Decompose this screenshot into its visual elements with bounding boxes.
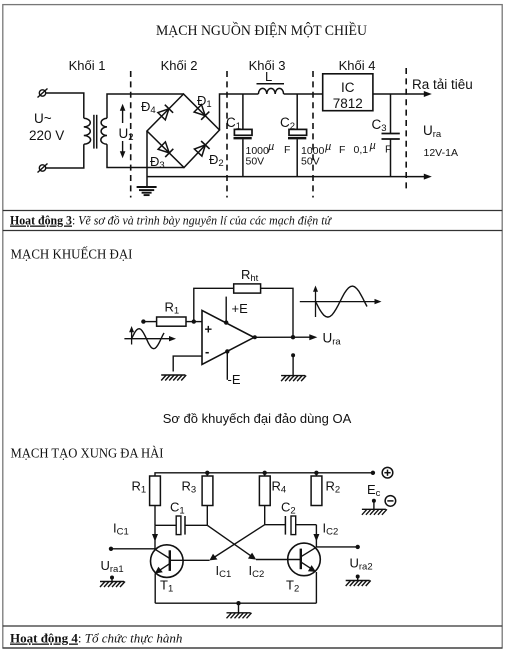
resistor R4 xyxy=(259,476,270,506)
node dot rail R4 xyxy=(263,471,267,475)
wire input to R1 xyxy=(143,321,156,323)
svg-text:Ura: Ura xyxy=(423,123,442,140)
resistor R1 xyxy=(150,476,161,506)
ground node dot below output xyxy=(291,353,295,357)
output waveform axis xyxy=(300,286,382,318)
input node dot xyxy=(141,319,145,323)
wire minus input to ground xyxy=(173,356,202,371)
wire bridge plus output up to top bus xyxy=(220,94,259,130)
ground Ura1 xyxy=(100,582,125,588)
svg-text:Đ2: Đ2 xyxy=(209,152,224,169)
node dot rail R2 xyxy=(314,471,318,475)
transformer secondary winding xyxy=(101,118,107,144)
bridge rectifier diamond wires xyxy=(147,94,220,168)
svg-text:7812: 7812 xyxy=(333,96,363,111)
svg-text:Ura: Ura xyxy=(323,331,342,348)
transistor T2 emitter diagonal with arrow xyxy=(301,562,316,572)
svg-text:Sơ đồ khuyếch đại đảo dùng OA: Sơ đồ khuyếch đại đảo dùng OA xyxy=(163,411,352,426)
+E supply wire xyxy=(225,297,227,323)
svg-text:µ: µ xyxy=(268,141,274,153)
diode D1 xyxy=(194,105,209,120)
wire R3 down to C1 node xyxy=(206,506,208,526)
resistor Rht xyxy=(234,284,261,293)
ground Ura2 xyxy=(346,581,371,587)
input waveform axis xyxy=(124,326,176,345)
node dot Ura1 ground xyxy=(110,576,114,580)
svg-text:Khối 2: Khối 2 xyxy=(161,58,198,73)
wire T1 base xyxy=(170,559,210,561)
svg-text:C1: C1 xyxy=(170,500,185,517)
output arrow bottom xyxy=(424,174,432,180)
node dot Ura1 xyxy=(109,547,113,551)
svg-text:F: F xyxy=(339,144,345,156)
wire T2 base xyxy=(256,559,301,561)
node junction feedback dot xyxy=(192,319,196,323)
svg-text:Đ4: Đ4 xyxy=(141,99,156,116)
transformer core xyxy=(94,115,97,149)
svg-text:µ: µ xyxy=(370,140,376,152)
separator line above Hoat dong 3 row xyxy=(3,210,502,212)
output arrowhead xyxy=(309,334,317,340)
svg-text:IC: IC xyxy=(341,80,355,95)
separator line below Hoat dong 3 row xyxy=(3,230,502,232)
transistor T2 base bar xyxy=(300,549,302,570)
wire Ura2 tap xyxy=(316,546,357,548)
wire rail to R3 xyxy=(206,473,208,476)
svg-text:R2: R2 xyxy=(326,479,341,496)
svg-text:0,1: 0,1 xyxy=(354,144,369,156)
svg-text:-E: -E xyxy=(228,372,241,387)
transistor T1 circle xyxy=(151,545,184,578)
svg-text:Đ3: Đ3 xyxy=(150,154,165,171)
capacitor C2 xyxy=(265,516,317,535)
svg-text:C2: C2 xyxy=(280,115,295,132)
battery minus terminal xyxy=(385,496,396,507)
-E supply wire xyxy=(226,351,228,379)
resistor R2 xyxy=(311,476,322,506)
svg-text:T1: T1 xyxy=(160,578,173,595)
wire IC output to arrow xyxy=(373,93,425,95)
battery plus terminal xyxy=(382,467,393,478)
wire Ura1 ground stub xyxy=(111,578,113,582)
wire top supply rail xyxy=(155,473,373,476)
diode D4 xyxy=(158,105,173,120)
wire collector T1 with IC1 arrow xyxy=(152,525,158,549)
diode D2 xyxy=(194,141,209,156)
resistor R3 xyxy=(202,476,213,506)
wire primary loop xyxy=(46,93,84,168)
input terminal top xyxy=(38,89,48,98)
svg-text:220 V: 220 V xyxy=(29,128,64,143)
output wire xyxy=(254,336,311,338)
node dot rail R3 xyxy=(205,471,209,475)
wire T2 emitter down xyxy=(315,572,317,603)
wire ground stub bottom rail xyxy=(238,603,240,613)
dashed boundary line 4 xyxy=(405,68,407,192)
svg-text:F: F xyxy=(385,144,391,156)
svg-text:IC2: IC2 xyxy=(323,521,339,538)
node dot Ec ground xyxy=(372,499,376,503)
svg-text:T2: T2 xyxy=(286,578,299,595)
input sine wave xyxy=(132,329,164,349)
ground (bars style) xyxy=(137,187,157,195)
transistor T2 collector diagonal xyxy=(301,547,316,557)
separator line below Hoat dong 4 row (frame bottom) xyxy=(3,647,502,649)
output sine wave xyxy=(316,286,368,317)
svg-text:Hoạt động 3: Vẽ sơ đồ và trình: Hoạt động 3: Vẽ sơ đồ và trình bày nguyê… xyxy=(10,213,332,228)
svg-text:IC1: IC1 xyxy=(216,563,232,580)
svg-text:Khối 4: Khối 4 xyxy=(339,58,376,73)
transformer primary winding xyxy=(84,118,91,144)
output node dot xyxy=(291,335,295,339)
svg-text:Ec: Ec xyxy=(367,482,381,499)
wire rail to R4 xyxy=(264,473,266,476)
wire bottom bus xyxy=(147,176,425,178)
capacitor C2 xyxy=(288,94,307,177)
wire Ura1 tap xyxy=(111,548,155,550)
U2 down arrow xyxy=(120,141,126,158)
svg-text:Ura1: Ura1 xyxy=(101,558,124,575)
svg-text:Khối 1: Khối 1 xyxy=(69,58,106,73)
svg-text:12V-1A: 12V-1A xyxy=(424,147,458,159)
wire rail to R2 xyxy=(315,473,317,476)
cross-coupling wire R4 to T1 base with arrow xyxy=(209,525,264,561)
wire R1 down to C1 node xyxy=(154,506,156,526)
svg-text:Ra tải tiêu: Ra tải tiêu xyxy=(412,77,473,92)
svg-text:R4: R4 xyxy=(272,479,287,496)
cross-coupling wire R3 to T2 base with arrow xyxy=(207,525,256,559)
svg-text:IC1: IC1 xyxy=(113,521,129,538)
svg-text:R1: R1 xyxy=(165,300,180,317)
resistor R1 xyxy=(157,317,186,326)
svg-text:MẠCH NGUỒN ĐIỆN MỘT CHIỀU: MẠCH NGUỒN ĐIỆN MỘT CHIỀU xyxy=(156,21,367,39)
svg-text:Đ1: Đ1 xyxy=(197,93,212,110)
capacitor C1 xyxy=(155,516,207,535)
wire Rht to output node xyxy=(261,288,293,337)
svg-text:50V: 50V xyxy=(301,156,320,168)
transistor T2 circle xyxy=(288,543,321,576)
+E node dot xyxy=(224,320,228,324)
svg-text:C1: C1 xyxy=(226,115,241,132)
node dot rail end xyxy=(371,471,375,475)
wire R2 down with IC2 arrow to T2 collector xyxy=(313,525,319,548)
capacitor C1 xyxy=(234,94,253,177)
IC 7812 box xyxy=(323,74,373,111)
wire Ec ground stub xyxy=(373,501,375,510)
dashed boundary line 3 xyxy=(312,71,314,198)
ground bottom rail xyxy=(227,613,252,619)
ground Ec xyxy=(362,509,387,515)
wire down to output ground xyxy=(292,355,294,375)
separator line above Hoat dong 4 row xyxy=(3,625,502,627)
wire Ura2 ground stub xyxy=(357,577,359,581)
wire bridge minus output down xyxy=(146,131,148,187)
svg-text:MẠCH KHUẾCH ĐẠI: MẠCH KHUẾCH ĐẠI xyxy=(11,246,133,263)
U2 up arrow xyxy=(120,104,126,123)
svg-text:+E: +E xyxy=(232,301,249,316)
capacitor C3 xyxy=(382,94,400,177)
wire secondary loop xyxy=(107,94,184,168)
svg-text:Ura2: Ura2 xyxy=(350,556,373,573)
svg-text:MẠCH TẠO XUNG ĐA HÀI: MẠCH TẠO XUNG ĐA HÀI xyxy=(11,445,164,462)
svg-text:C2: C2 xyxy=(281,500,296,517)
svg-text:µ: µ xyxy=(325,141,331,153)
node dot bottom rail xyxy=(236,601,240,605)
svg-text:-: - xyxy=(205,344,209,359)
input terminal bottom xyxy=(38,164,48,173)
transistor T1 collector diagonal xyxy=(155,549,170,558)
wire feedback up and right to Rht xyxy=(194,288,234,321)
wire bottom emitter rail xyxy=(155,602,316,604)
output arrow top xyxy=(424,91,432,97)
svg-text:Rht: Rht xyxy=(241,267,259,284)
svg-text:U~: U~ xyxy=(34,111,52,126)
svg-text:R3: R3 xyxy=(182,479,197,496)
svg-text:Hoạt động 4: Tổ chức thực hành: Hoạt động 4: Tổ chức thực hành xyxy=(10,631,182,646)
output tip dot xyxy=(253,335,257,339)
svg-text:R1: R1 xyxy=(132,479,147,496)
wire T1 emitter down xyxy=(154,574,156,604)
node dot Ura2 ground xyxy=(356,575,360,579)
svg-text:L: L xyxy=(265,69,272,84)
dashed boundary line 2 xyxy=(226,71,228,198)
transistor T1 base bar xyxy=(169,550,171,571)
dashed boundary line 1 xyxy=(130,71,132,198)
wire top bus L to IC xyxy=(284,93,323,95)
svg-text:F: F xyxy=(284,144,290,156)
ground minus input xyxy=(161,375,186,381)
svg-text:50V: 50V xyxy=(246,156,265,168)
ground below output xyxy=(281,376,306,382)
inductor core bar xyxy=(257,83,285,85)
wire R4 down to C2 node xyxy=(264,506,266,525)
-E node dot xyxy=(225,349,229,353)
inductor L coil xyxy=(258,88,283,94)
diode D3 xyxy=(158,142,173,157)
node dot Ura2 xyxy=(356,545,360,549)
transistor T1 emitter diagonal with arrow xyxy=(155,564,170,574)
svg-text:+: + xyxy=(205,322,213,337)
svg-text:C3: C3 xyxy=(372,117,387,134)
svg-text:IC2: IC2 xyxy=(249,563,265,580)
wire R1 to op-amp plus input xyxy=(186,321,202,323)
op-amp U1 triangle xyxy=(202,310,254,364)
